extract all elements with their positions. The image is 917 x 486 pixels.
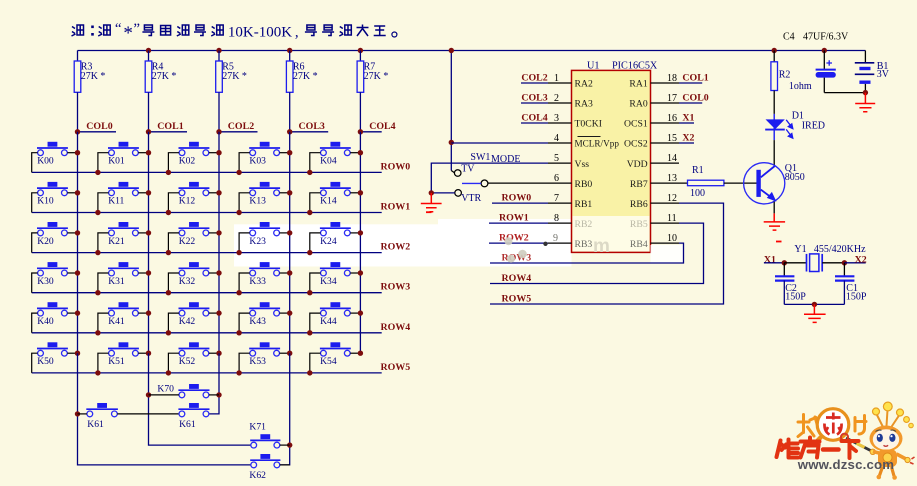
pin name VDD: [627, 159, 648, 170]
key switch K04: [307, 142, 363, 175]
svg-text:K53: K53: [249, 356, 266, 367]
svg-text:RB3: RB3: [575, 239, 593, 250]
svg-text:RA3: RA3: [575, 99, 593, 110]
key switch K61 left: [78, 403, 180, 430]
svg-text:www.dzsc.com: www.dzsc.com: [797, 457, 894, 472]
svg-text:MCLR/Vpp: MCLR/Vpp: [575, 139, 620, 149]
svg-text:T0CKI: T0CKI: [575, 119, 602, 130]
pin name RA2: [575, 79, 593, 90]
svg-text:27K *: 27K *: [293, 71, 318, 82]
switch SW1 VTR contact: [431, 190, 461, 197]
transistor Q1 8050: [744, 163, 805, 204]
key switch K62: [249, 454, 289, 481]
svg-text:K03: K03: [249, 156, 266, 167]
key switch K23: [236, 222, 292, 255]
svg-text:COL4: COL4: [369, 121, 395, 132]
net label X1 + wire: [764, 254, 787, 265]
net label ROW5 (mcu): [502, 293, 532, 304]
svg-text:K70: K70: [157, 383, 174, 394]
svg-text:K50: K50: [37, 356, 54, 367]
svg-text:K02: K02: [179, 156, 196, 167]
crystal Y1 455/420KHz: [784, 244, 866, 271]
pin name RB2: [575, 219, 593, 230]
pin name RA3: [575, 99, 593, 110]
wire ROW5 line: [32, 372, 382, 374]
svg-text:17: 17: [667, 93, 677, 104]
svg-text:16: 16: [667, 113, 677, 124]
label TV: [461, 163, 475, 174]
pin name RA1: [629, 79, 647, 90]
svg-text:K61: K61: [87, 419, 104, 430]
key switch K03: [236, 142, 292, 175]
wire COL0 extension to K61/K62: [75, 353, 251, 465]
key switch K32: [166, 262, 222, 295]
svg-text:K52: K52: [179, 356, 196, 367]
svg-text:ROW3: ROW3: [381, 282, 411, 293]
svg-text:150P: 150P: [785, 292, 806, 303]
svg-text:9: 9: [553, 233, 558, 244]
svg-text:RB7: RB7: [630, 179, 648, 190]
wire V+ drop to SW1/MCLR: [450, 51, 452, 143]
resistor R2 1ohm: [771, 51, 812, 92]
svg-text:RA0: RA0: [629, 99, 647, 110]
svg-text:X1: X1: [682, 113, 694, 124]
svg-text:7: 7: [554, 193, 559, 204]
pin name RB5: [630, 219, 648, 230]
svg-text:K31: K31: [108, 276, 125, 287]
svg-text:ROW4: ROW4: [502, 273, 532, 284]
svg-text:ROW5: ROW5: [381, 362, 411, 373]
key switch K44: [307, 302, 363, 335]
ground (crystal): [804, 304, 826, 322]
label PIC16C5X: [612, 61, 658, 72]
net label ROW3 (mcu, faded): [502, 252, 532, 263]
svg-text:5: 5: [554, 153, 559, 164]
svg-text:COL3: COL3: [521, 93, 547, 104]
svg-text:COL1: COL1: [682, 73, 708, 84]
svg-text:RA2: RA2: [575, 79, 593, 90]
svg-text:K40: K40: [37, 316, 54, 327]
key switch K13: [236, 182, 292, 215]
svg-text:K71: K71: [249, 422, 266, 433]
pin 12 wire to ROW5: [490, 193, 724, 304]
svg-text:K14: K14: [320, 196, 337, 207]
resistor R1 100: [688, 165, 724, 199]
label SW1: [470, 152, 490, 163]
pin name RB3: [575, 239, 593, 250]
svg-text:8050: 8050: [785, 172, 805, 183]
svg-text:K00: K00: [37, 156, 54, 167]
wire COL1 extension to K70/K71: [146, 353, 251, 445]
key switch K11: [95, 182, 151, 215]
switch SW1 common pole: [462, 180, 488, 187]
svg-text:18: 18: [667, 73, 677, 84]
ground (Q1 emitter): [764, 213, 785, 230]
svg-text:ROW5: ROW5: [502, 293, 532, 304]
key switch K21: [95, 222, 151, 255]
svg-text:K23: K23: [249, 236, 266, 247]
key switch K41: [95, 302, 151, 335]
svg-text:150P: 150P: [846, 292, 867, 303]
resistor R7 27K*: [357, 51, 388, 132]
net label ROW4 (mcu): [502, 273, 532, 284]
svg-text:ROW0: ROW0: [502, 193, 532, 204]
svg-text:K22: K22: [179, 236, 196, 247]
svg-text:K54: K54: [320, 356, 337, 367]
net label COL1: [146, 121, 187, 135]
wire R1 to Q1 base: [724, 182, 757, 184]
svg-text:C4: C4: [783, 32, 795, 43]
svg-text:COL4: COL4: [521, 113, 547, 124]
svg-text:K12: K12: [179, 196, 196, 207]
svg-text:1ohm: 1ohm: [789, 81, 812, 92]
svg-text:U1: U1: [587, 61, 599, 72]
svg-text:COL2: COL2: [521, 73, 547, 84]
key switch K01: [95, 142, 151, 175]
wire COL4 column line: [359, 132, 361, 353]
pin 9 wire + ROW2: [489, 233, 572, 245]
net label X2 + wire: [842, 254, 867, 265]
svg-text:COL0: COL0: [86, 121, 112, 132]
pin name RB0: [575, 179, 593, 190]
net label ROW1 (matrix): [381, 202, 411, 213]
key switch K53: [236, 342, 292, 375]
wire V+ top rail: [78, 50, 866, 52]
svg-text:RB0: RB0: [575, 179, 593, 190]
net label COL4: [358, 121, 396, 135]
svg-text:,: ,: [295, 25, 299, 41]
svg-text:11: 11: [667, 213, 677, 224]
svg-text:K24: K24: [320, 236, 337, 247]
capacitor C1 150P: [835, 263, 867, 305]
svg-text:27K *: 27K *: [222, 71, 247, 82]
svg-text:K33: K33: [249, 276, 266, 287]
pin 7 wire + ROW0: [492, 193, 572, 205]
capacitor C2 150P: [775, 263, 806, 305]
pin 2 wire + COL3: [521, 93, 572, 104]
key switch K30: [32, 262, 81, 293]
key switch K20: [32, 222, 81, 253]
svg-text:X2: X2: [682, 133, 694, 144]
pin 17 wire + COL0: [651, 93, 709, 104]
pin name T0CKI: [575, 119, 602, 130]
key switch K12: [166, 182, 222, 215]
pin 5 number: [554, 153, 559, 164]
battery B1 3V: [855, 61, 890, 93]
svg-text:R1: R1: [692, 165, 704, 176]
pin name RB4: [630, 239, 648, 250]
svg-text:K04: K04: [320, 156, 337, 167]
key switch K71: [249, 422, 289, 449]
svg-text:*: *: [123, 23, 132, 44]
resistor R6 27K*: [286, 51, 317, 132]
watermark logo 找芯片 + mascot + 维库一下 www.dzsc.com: [777, 402, 915, 480]
svg-text:RB4: RB4: [630, 239, 648, 250]
svg-text:ROW2: ROW2: [499, 233, 529, 244]
wire crystal ground run: [784, 302, 844, 307]
note text: resistors marked * can be 10K-100K: [72, 21, 397, 44]
key switch K43: [236, 302, 292, 335]
key switch K14: [307, 182, 363, 215]
svg-text:K34: K34: [320, 276, 337, 287]
svg-text:K44: K44: [320, 316, 337, 327]
key switch K61 mid: [178, 403, 209, 430]
svg-text:X1: X1: [764, 254, 776, 265]
svg-text:K10: K10: [37, 196, 54, 207]
pin 10 wire to ROW3: [490, 233, 684, 263]
capacitor C4 symbol: [816, 51, 836, 93]
wire ROW1 line: [32, 212, 382, 214]
wire ROW0 line: [32, 171, 382, 173]
svg-text:2: 2: [554, 93, 559, 104]
svg-text:SW1: SW1: [470, 152, 490, 163]
svg-text:VTR: VTR: [461, 193, 481, 204]
label VTR: [461, 193, 481, 204]
net label COL2: [216, 121, 257, 135]
watermark remnant smudges: [505, 236, 610, 263]
svg-text:100: 100: [690, 188, 705, 199]
wire Q1 emitter down: [773, 202, 775, 214]
wire D1 to Q1 collector: [773, 140, 775, 165]
ground (battery): [855, 93, 875, 112]
key switch K24: [307, 222, 363, 255]
svg-text:RB5: RB5: [630, 219, 648, 230]
net label COL0: [75, 121, 116, 135]
pin name OCS1: [624, 119, 648, 130]
svg-text:K43: K43: [249, 316, 266, 327]
junction dot ground node: [429, 190, 434, 195]
key switch K52: [166, 342, 222, 375]
pin name MCLR/Vpp: [575, 137, 620, 149]
wire COL2 column line: [218, 132, 220, 353]
resistor R5 27K*: [216, 51, 247, 132]
svg-text:ROW2: ROW2: [381, 242, 411, 253]
pin name RB6: [630, 199, 648, 210]
svg-text:K13: K13: [249, 196, 266, 207]
svg-text:K51: K51: [108, 356, 125, 367]
net label ROW0 (matrix): [381, 161, 411, 172]
pin name RA0: [629, 99, 647, 110]
svg-text:1: 1: [554, 73, 559, 84]
wire COL3 column line: [289, 132, 291, 353]
svg-text:3: 3: [554, 113, 559, 124]
wire R2 to D1: [773, 91, 775, 114]
svg-text:27K *: 27K *: [364, 71, 389, 82]
svg-text:10K-100K: 10K-100K: [228, 25, 292, 41]
svg-text:OCS1: OCS1: [624, 119, 648, 130]
net label ROW5 (matrix): [381, 362, 411, 373]
net label ROW2 (matrix): [381, 242, 411, 253]
key switch K02: [166, 142, 222, 175]
key switch K70: [149, 383, 220, 397]
wire ROW4 line: [32, 332, 382, 334]
svg-text:VDD: VDD: [627, 159, 648, 170]
key switch K31: [95, 262, 151, 295]
net label ROW3 (matrix): [381, 282, 411, 293]
svg-text:K32: K32: [179, 276, 196, 287]
svg-text:K30: K30: [37, 276, 54, 287]
svg-text:OCS2: OCS2: [624, 139, 648, 150]
svg-text:ROW0: ROW0: [381, 161, 411, 172]
svg-text:K20: K20: [37, 236, 54, 247]
key switch K50: [32, 342, 81, 373]
label MODE: [491, 154, 520, 165]
svg-text:8: 8: [554, 213, 559, 224]
pin 18 wire + COL1: [651, 73, 709, 84]
svg-text:K01: K01: [108, 156, 125, 167]
key switch K10: [32, 182, 81, 213]
svg-text:13: 13: [667, 173, 677, 184]
watermark-erase white patch over chip: [573, 216, 684, 263]
wire COL2 extension to K70/K61: [209, 353, 222, 414]
capacitor C4 value label: [783, 32, 849, 43]
svg-text:“: “: [115, 21, 122, 37]
wire V+ drop to battery: [864, 51, 866, 63]
net label COL3: [287, 121, 328, 135]
wire ROW2 line: [32, 252, 382, 254]
pin 14 wire VDD: [651, 153, 680, 164]
wire COL3 extension to K71/K62: [280, 353, 293, 465]
svg-text:COL0: COL0: [682, 93, 708, 104]
key switch K22: [166, 222, 222, 255]
key switch K54: [307, 342, 363, 375]
svg-text:ROW1: ROW1: [499, 213, 529, 224]
pin 16 wire + X1: [651, 113, 695, 124]
svg-text:K42: K42: [179, 316, 196, 327]
svg-text:4: 4: [554, 133, 559, 144]
key switch K33: [236, 262, 292, 295]
junction dot MCLR/SW1: [449, 140, 454, 145]
svg-text:K11: K11: [108, 196, 124, 207]
key switch K40: [32, 302, 81, 333]
pin 15 wire + X2: [651, 133, 695, 144]
wire C4 to battery bottom: [824, 92, 865, 94]
diode D1 IRED led: [765, 111, 825, 140]
key switch K42: [166, 302, 222, 335]
red remnant dashes: [426, 211, 782, 242]
junction dots on V+ rail: [146, 48, 827, 53]
svg-text:RB6: RB6: [630, 199, 648, 210]
svg-text:27K *: 27K *: [152, 71, 177, 82]
svg-text:K21: K21: [108, 236, 125, 247]
svg-text:Vss: Vss: [575, 159, 590, 170]
svg-text:47UF/6.3V: 47UF/6.3V: [803, 32, 849, 43]
wire COL0 column line: [77, 132, 79, 353]
pin 4 wire MCLR: [451, 133, 571, 144]
resistor R4 27K*: [145, 51, 176, 132]
pin 11 wire to ROW4: [490, 213, 704, 283]
pin name OCS2: [624, 139, 648, 150]
pin 6 wire from SW1: [488, 173, 572, 184]
key switch K51: [95, 342, 151, 375]
svg-text:6: 6: [554, 173, 559, 184]
svg-text:TV: TV: [461, 163, 475, 174]
switch SW1 TV contact: [451, 142, 461, 176]
svg-text:COL1: COL1: [157, 121, 183, 132]
resistor R3 27K*: [74, 51, 105, 132]
svg-text:10: 10: [667, 233, 677, 244]
svg-text:3V: 3V: [877, 69, 890, 80]
svg-text:COL2: COL2: [228, 121, 254, 132]
svg-text:X2: X2: [855, 254, 867, 265]
svg-text:ROW4: ROW4: [381, 322, 411, 333]
svg-text:Y1: Y1: [794, 244, 806, 255]
svg-text:RB2: RB2: [575, 219, 593, 230]
wire COL1 column line: [148, 132, 150, 353]
svg-text:”: ”: [133, 21, 140, 37]
pin 13 wire to R1: [651, 173, 688, 184]
svg-text:RA1: RA1: [629, 79, 647, 90]
key switch K34: [307, 262, 363, 295]
pin name RB7: [630, 179, 648, 190]
svg-text:15: 15: [667, 133, 677, 144]
wire Vss to ground: [431, 163, 571, 193]
junction dot battery bottom: [863, 90, 868, 95]
net label ROW4 (matrix): [381, 322, 411, 333]
svg-text:IRED: IRED: [802, 121, 825, 132]
label U1: [587, 61, 599, 72]
pin name Vss: [575, 159, 590, 170]
svg-text:K62: K62: [249, 470, 266, 481]
svg-text:R2: R2: [779, 69, 791, 80]
svg-text:ROW1: ROW1: [381, 202, 411, 213]
watermark-erase white patch left: [234, 219, 572, 267]
pin 3 wire + COL4: [521, 113, 572, 124]
svg-text:K41: K41: [108, 316, 125, 327]
svg-text:12: 12: [667, 193, 677, 204]
svg-text:14: 14: [667, 153, 677, 164]
pin 1 wire + COL2: [521, 73, 572, 84]
pin 8 wire + ROW1: [489, 213, 572, 225]
svg-text:27K *: 27K *: [81, 71, 106, 82]
pin name RB1: [575, 199, 593, 210]
svg-text:K61: K61: [179, 419, 196, 430]
wire ROW3 line: [32, 292, 382, 294]
svg-text:m: m: [593, 236, 610, 257]
IC U1 PIC16C5X body: [572, 70, 651, 252]
svg-text:RB1: RB1: [575, 199, 593, 210]
ground (Vss/VTR): [421, 193, 442, 212]
svg-text:PIC16C5X: PIC16C5X: [612, 61, 658, 72]
key switch K00: [32, 142, 81, 173]
svg-text:COL3: COL3: [299, 121, 325, 132]
